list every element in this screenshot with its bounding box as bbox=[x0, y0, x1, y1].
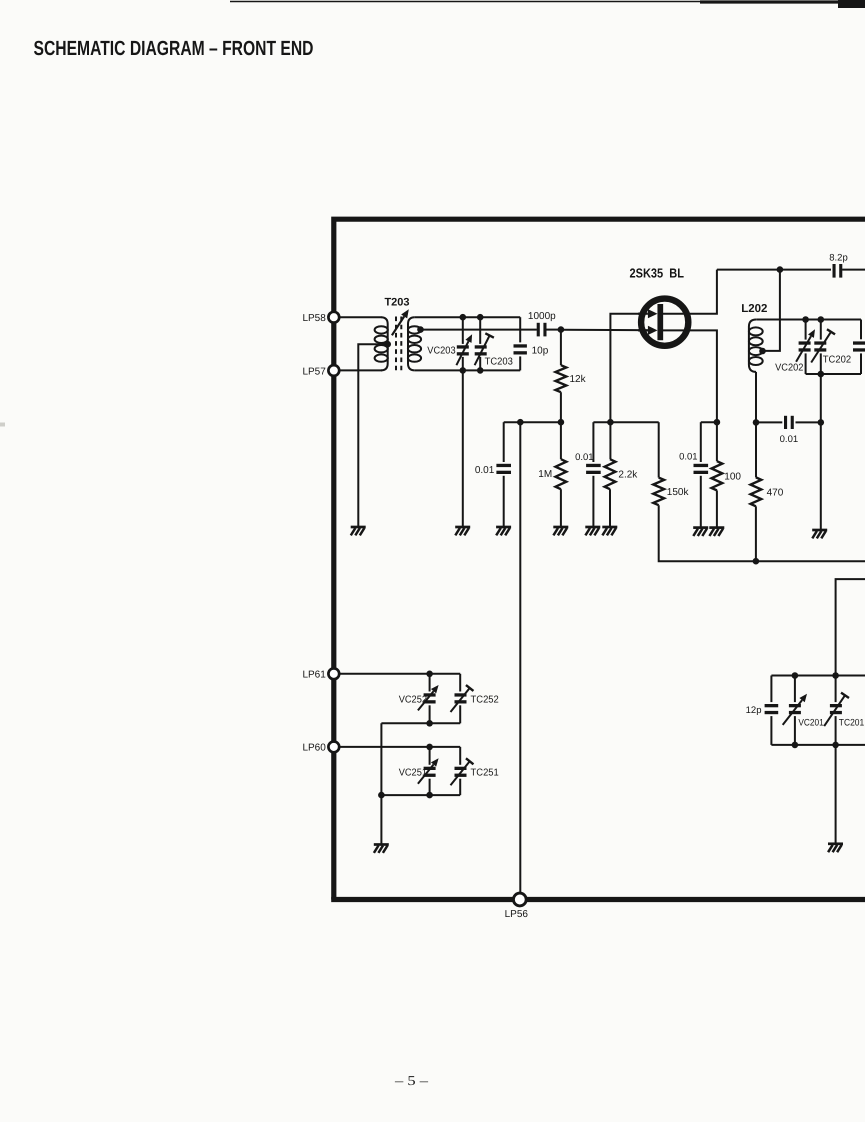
ground below 1M bbox=[553, 527, 568, 535]
svg-text:TC203: TC203 bbox=[485, 356, 514, 367]
node tank link bbox=[378, 792, 385, 799]
border frame bbox=[331, 219, 865, 899]
node 0.01-TC202 bbox=[818, 419, 825, 426]
wire L202 bottom bbox=[755, 372, 757, 423]
svg-text:0.01: 0.01 bbox=[780, 434, 799, 445]
capacitor 10p bbox=[514, 317, 527, 370]
svg-text:LP61: LP61 bbox=[302, 670, 326, 681]
ground below 2.2k bbox=[602, 527, 617, 535]
wire LP58 to T203 primary bbox=[339, 316, 381, 318]
label VC203 bbox=[427, 346, 456, 357]
label VC202 bbox=[775, 363, 804, 374]
svg-text:TC251: TC251 bbox=[471, 768, 500, 779]
node L202 tap bbox=[759, 348, 766, 355]
capacitor at right edge bbox=[853, 320, 865, 375]
title bbox=[34, 37, 314, 60]
capacitor 12p bbox=[765, 676, 779, 745]
label LP56 bbox=[505, 909, 529, 920]
node drain rail bbox=[777, 266, 784, 273]
label TC252 bbox=[471, 694, 500, 705]
wire gate node to FET G1 bbox=[561, 329, 648, 331]
node TC202 top bbox=[818, 316, 825, 323]
svg-text:8.2p: 8.2p bbox=[829, 253, 848, 264]
node T203 primary tap bbox=[384, 341, 391, 348]
capacitor VC203 bbox=[456, 317, 472, 370]
capacitor 0.01 d bbox=[786, 416, 793, 429]
scan mark left edge bbox=[0, 423, 5, 427]
wire drain to L202 tap bbox=[763, 270, 780, 351]
svg-text:TC252: TC252 bbox=[471, 694, 500, 705]
terminal LP56 bbox=[513, 893, 526, 906]
inductor L202 bbox=[749, 320, 763, 372]
label TC202 bbox=[823, 354, 852, 365]
label LP61 bbox=[302, 670, 326, 681]
label L202 bbox=[741, 303, 767, 315]
wire FET G2 bbox=[610, 314, 645, 423]
node VC201 bottom bbox=[792, 742, 799, 749]
resistor 1M bbox=[556, 422, 567, 526]
label TC203 bbox=[485, 356, 514, 367]
wire rail2 bbox=[593, 421, 658, 423]
node TC202 bottom bbox=[818, 371, 825, 378]
node TC201 bottom bbox=[832, 742, 839, 749]
transformer core bbox=[396, 317, 401, 372]
label VC252 bbox=[399, 694, 428, 705]
svg-text:LP57: LP57 bbox=[302, 366, 326, 377]
svg-text:VC251: VC251 bbox=[399, 768, 428, 779]
capacitor TC251 bbox=[451, 747, 474, 795]
node rail2 G2 bbox=[607, 419, 614, 426]
svg-text:LP58: LP58 bbox=[302, 313, 326, 324]
terminal LP61 bbox=[328, 668, 339, 679]
resistor 2.2k bbox=[605, 422, 616, 526]
capacitor TC203 bbox=[475, 317, 494, 370]
svg-text:VC252: VC252 bbox=[399, 694, 428, 705]
label TC201 bbox=[839, 718, 864, 729]
label TC251 bbox=[471, 768, 500, 779]
ground below TC202 bbox=[812, 530, 827, 538]
wire rail3 bbox=[701, 421, 717, 423]
node L202 bottom junction bbox=[753, 419, 760, 426]
wire VC201 tank top rail bbox=[771, 675, 865, 677]
wire secondary tap to 1000p bbox=[421, 329, 537, 331]
ground below 100 bbox=[709, 528, 724, 536]
label 0.01 b bbox=[575, 452, 594, 463]
wire bottom rail bbox=[659, 422, 865, 561]
node VC252 top bbox=[426, 671, 433, 678]
label VC201 bbox=[798, 718, 823, 729]
wire rail1 bbox=[504, 421, 561, 423]
wire tank to ground lower bbox=[380, 795, 382, 844]
label 8.2p bbox=[829, 253, 848, 264]
ground below VC203 bbox=[455, 527, 470, 535]
wire FET source bbox=[663, 330, 717, 422]
wire tank bottom rail bbox=[415, 369, 521, 371]
resistor 12k bbox=[556, 330, 567, 423]
label 1000p bbox=[528, 311, 556, 322]
svg-text:10p: 10p bbox=[532, 345, 549, 356]
wire VC252 bottom rail bbox=[381, 722, 460, 724]
page number bbox=[394, 1073, 429, 1088]
node 470 bottom bbox=[753, 558, 760, 565]
capacitor 1000p bbox=[538, 323, 545, 337]
wire tank top rail bbox=[415, 316, 521, 318]
ground below 0.01 c bbox=[693, 528, 708, 536]
transformer T203 secondary winding bbox=[408, 317, 421, 370]
svg-text:VC201: VC201 bbox=[798, 718, 823, 729]
wire L202 tank bottom rail bbox=[806, 373, 861, 375]
capacitor 0.01 b bbox=[586, 422, 601, 526]
svg-text:VC203: VC203 bbox=[427, 346, 456, 357]
resistor 470 bbox=[751, 422, 762, 561]
label 0.01 d bbox=[780, 434, 799, 445]
scan edge line top bbox=[230, 0, 865, 8]
transistor 2SK35 BL bbox=[638, 299, 688, 346]
label 100 bbox=[724, 471, 741, 482]
label 12p bbox=[746, 705, 762, 716]
wire 8.2p to edge bbox=[842, 269, 865, 271]
label LP57 bbox=[302, 366, 326, 377]
node VC203 top bbox=[460, 314, 467, 321]
node VC202 top bbox=[802, 316, 809, 323]
svg-text:TC201: TC201 bbox=[839, 718, 864, 729]
label 0.01 a bbox=[475, 465, 495, 476]
svg-text:TC202: TC202 bbox=[823, 354, 852, 365]
capacitor TC201 bbox=[824, 676, 849, 745]
capacitor VC202 bbox=[796, 320, 815, 375]
ground at T203 tap bbox=[351, 527, 366, 535]
svg-text:0.01: 0.01 bbox=[475, 465, 495, 476]
capacitor 8.2p bbox=[834, 264, 841, 278]
svg-text:LP60: LP60 bbox=[302, 743, 326, 754]
svg-text:VC202: VC202 bbox=[775, 363, 804, 374]
wire 0.01 to TC202 line bbox=[796, 421, 821, 423]
wire VC201 tank bottom rail bbox=[771, 744, 865, 746]
label 12k bbox=[570, 374, 587, 385]
node rail1 12k bbox=[558, 419, 565, 426]
svg-text:0.01: 0.01 bbox=[679, 452, 698, 463]
terminal LP57 bbox=[328, 365, 339, 376]
svg-text:100: 100 bbox=[724, 471, 741, 482]
node VC252 bottom bbox=[426, 720, 433, 727]
wire FET drain bbox=[663, 270, 717, 314]
node rail1 LP56 bbox=[517, 419, 524, 426]
terminal LP58 bbox=[328, 312, 339, 323]
wire L202 junction to 0.01 bbox=[756, 421, 782, 423]
node T203 secondary tap bbox=[417, 326, 424, 333]
node VC201 top bbox=[792, 672, 799, 679]
label LP58 bbox=[302, 313, 326, 324]
wire TC202 to ground bbox=[820, 374, 822, 530]
wire tank link bbox=[380, 723, 382, 795]
wire L202 tank top rail bbox=[756, 319, 861, 321]
label 2SK35 BL bbox=[630, 266, 685, 281]
svg-text:12p: 12p bbox=[746, 705, 762, 716]
wire right edge to tank bbox=[836, 579, 865, 675]
label T203 bbox=[384, 297, 409, 309]
svg-text:1000p: 1000p bbox=[528, 311, 556, 322]
svg-text:SCHEMATIC DIAGRAM – FRONT END: SCHEMATIC DIAGRAM – FRONT END bbox=[34, 37, 314, 60]
node TC201 top bbox=[832, 672, 839, 679]
svg-text:2.2k: 2.2k bbox=[618, 469, 638, 480]
wire drain rail bbox=[717, 269, 831, 271]
svg-text:LP56: LP56 bbox=[505, 909, 529, 920]
ground below TC201 bbox=[828, 844, 843, 852]
capacitor VC252 bbox=[418, 674, 439, 724]
wire LP61 rail bbox=[339, 673, 460, 675]
wire TC201 to ground bbox=[835, 745, 837, 843]
label 470 bbox=[767, 487, 784, 498]
node TC203 top bbox=[477, 314, 484, 321]
wire 1000p to gate node bbox=[546, 329, 561, 331]
wire LP56 riser bbox=[519, 422, 521, 893]
wire LP57 to T203 primary bbox=[339, 369, 382, 371]
wire tap to ground bbox=[358, 344, 387, 527]
label LP60 bbox=[302, 743, 326, 754]
svg-text:0.01: 0.01 bbox=[575, 452, 594, 463]
node VC203 bottom bbox=[460, 367, 467, 374]
node VC251 bottom bbox=[426, 792, 433, 799]
node VC251 top bbox=[426, 744, 433, 751]
svg-text:470: 470 bbox=[767, 487, 784, 498]
label 2.2k bbox=[618, 469, 638, 480]
svg-text:T203: T203 bbox=[384, 297, 409, 309]
wire LP60 rail bbox=[339, 746, 460, 748]
label 1M bbox=[538, 469, 552, 480]
resistor 100 bbox=[712, 422, 723, 527]
capacitor TC252 bbox=[451, 674, 474, 724]
node rail3 source bbox=[714, 419, 721, 426]
terminal LP60 bbox=[328, 742, 339, 753]
svg-text:12k: 12k bbox=[570, 374, 587, 385]
capacitor TC202 bbox=[811, 320, 835, 375]
capacitor 0.01 a bbox=[496, 422, 511, 526]
ground below VC251 tank bbox=[374, 845, 389, 853]
ground below 0.01 b bbox=[585, 527, 600, 535]
svg-text:2SK35 BL: 2SK35 BL bbox=[630, 266, 685, 281]
svg-text:1M: 1M bbox=[538, 469, 552, 480]
label 150k bbox=[667, 487, 690, 498]
label 10p bbox=[532, 345, 549, 356]
capacitor 0.01 c bbox=[694, 422, 709, 527]
label 0.01 c bbox=[679, 452, 698, 463]
T203 tuning arrow bbox=[392, 309, 409, 335]
wire tank to ground bbox=[462, 370, 464, 526]
transformer T203 primary winding bbox=[375, 317, 388, 370]
ground below 0.01 a bbox=[496, 527, 511, 535]
node TC203 bottom bbox=[477, 367, 484, 374]
resistor 150k bbox=[653, 478, 664, 506]
capacitor VC251 bbox=[418, 747, 439, 795]
svg-text:– 5 –: – 5 – bbox=[394, 1073, 429, 1088]
node gate1 bbox=[558, 326, 565, 333]
svg-text:L202: L202 bbox=[741, 303, 767, 315]
capacitor VC201 bbox=[783, 676, 807, 745]
label VC251 bbox=[399, 768, 428, 779]
wire VC251 bottom rail bbox=[381, 794, 460, 796]
svg-text:150k: 150k bbox=[667, 487, 690, 498]
